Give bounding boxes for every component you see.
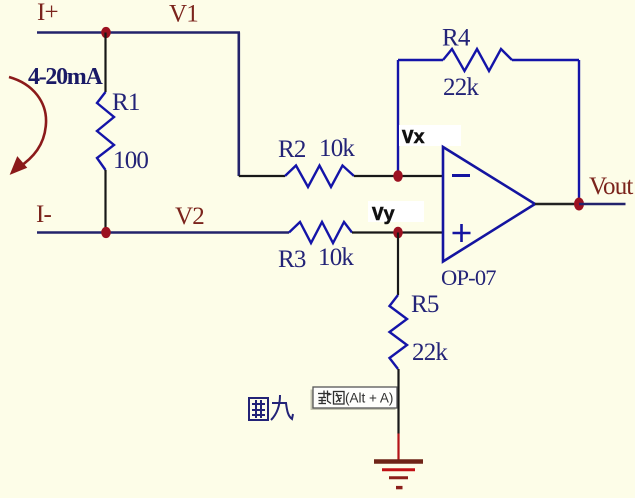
resistor R3: [289, 222, 352, 243]
tooltip glyph 图: [334, 392, 345, 405]
svg-text:Vx: Vx: [402, 127, 425, 149]
svg-text:10k: 10k: [319, 135, 355, 162]
svg-text:Vout: Vout: [589, 173, 633, 200]
node Vx junction: [393, 170, 403, 182]
node Vy junction: [393, 227, 403, 239]
svg-text:22k: 22k: [443, 74, 479, 101]
node I+ junction: [101, 27, 111, 38]
label box Vy: [368, 201, 424, 222]
wire I- V2 rail: [37, 231, 289, 234]
svg-text:(Alt + A): (Alt + A): [345, 391, 393, 406]
wire R2 left lead: [239, 175, 285, 177]
ground: [374, 462, 423, 488]
svg-text:R3: R3: [278, 246, 306, 273]
op-amp U1: [443, 147, 535, 262]
op-amp minus sign: [452, 174, 470, 177]
svg-text:22k: 22k: [412, 339, 448, 366]
tooltip shadow: [311, 390, 396, 411]
wire ground lead red: [397, 434, 399, 461]
wire V1 corner vertical down to R2: [238, 33, 241, 177]
resistor R5: [390, 295, 408, 369]
wire R3 to plus input: [352, 231, 443, 233]
wire R4 top-left: [398, 59, 443, 61]
svg-text:R2: R2: [278, 136, 306, 163]
svg-text:R5: R5: [411, 291, 439, 318]
wire R4 right vertical down to Vout: [578, 60, 580, 204]
svg-text:R4: R4: [442, 25, 471, 52]
svg-text:V2: V2: [175, 203, 204, 230]
wire Vy down to R5: [397, 233, 399, 296]
label 圖九 (Figure 9): [249, 395, 293, 420]
wire R1 bottom lead: [104, 170, 106, 233]
resistor R1: [97, 92, 114, 170]
wire op-amp output: [535, 203, 579, 206]
current arrow: [9, 77, 46, 168]
svg-text:V1: V1: [169, 1, 198, 28]
svg-text:I-: I-: [36, 201, 52, 228]
svg-text:4-20mA: 4-20mA: [28, 64, 103, 90]
svg-text:R1: R1: [112, 89, 140, 116]
node I- junction: [101, 227, 111, 238]
wire R2 to minus input: [354, 175, 443, 177]
wire Vout stub: [579, 203, 626, 206]
wire R5 bottom lead: [397, 369, 399, 434]
resistor R4: [443, 49, 512, 71]
op-amp plus sign: [453, 224, 471, 242]
tooltip glyph 截: [318, 391, 332, 404]
svg-text:OP-07: OP-07: [441, 265, 496, 290]
node Vout junction: [574, 198, 584, 211]
svg-text:I+: I+: [37, 0, 58, 26]
tooltip box 截图(Alt + A): [313, 387, 397, 408]
svg-text:100: 100: [113, 147, 148, 174]
svg-text:Vy: Vy: [372, 204, 395, 226]
wire Vx vertical to R4: [397, 60, 399, 176]
wire R1 top lead: [104, 33, 106, 93]
label box Vx: [399, 125, 461, 146]
resistor R2: [285, 166, 354, 188]
wire R4 top-right: [512, 59, 579, 61]
svg-text:10k: 10k: [318, 244, 354, 271]
wire I+ top rail: [37, 31, 240, 34]
arrowhead: [11, 158, 26, 174]
